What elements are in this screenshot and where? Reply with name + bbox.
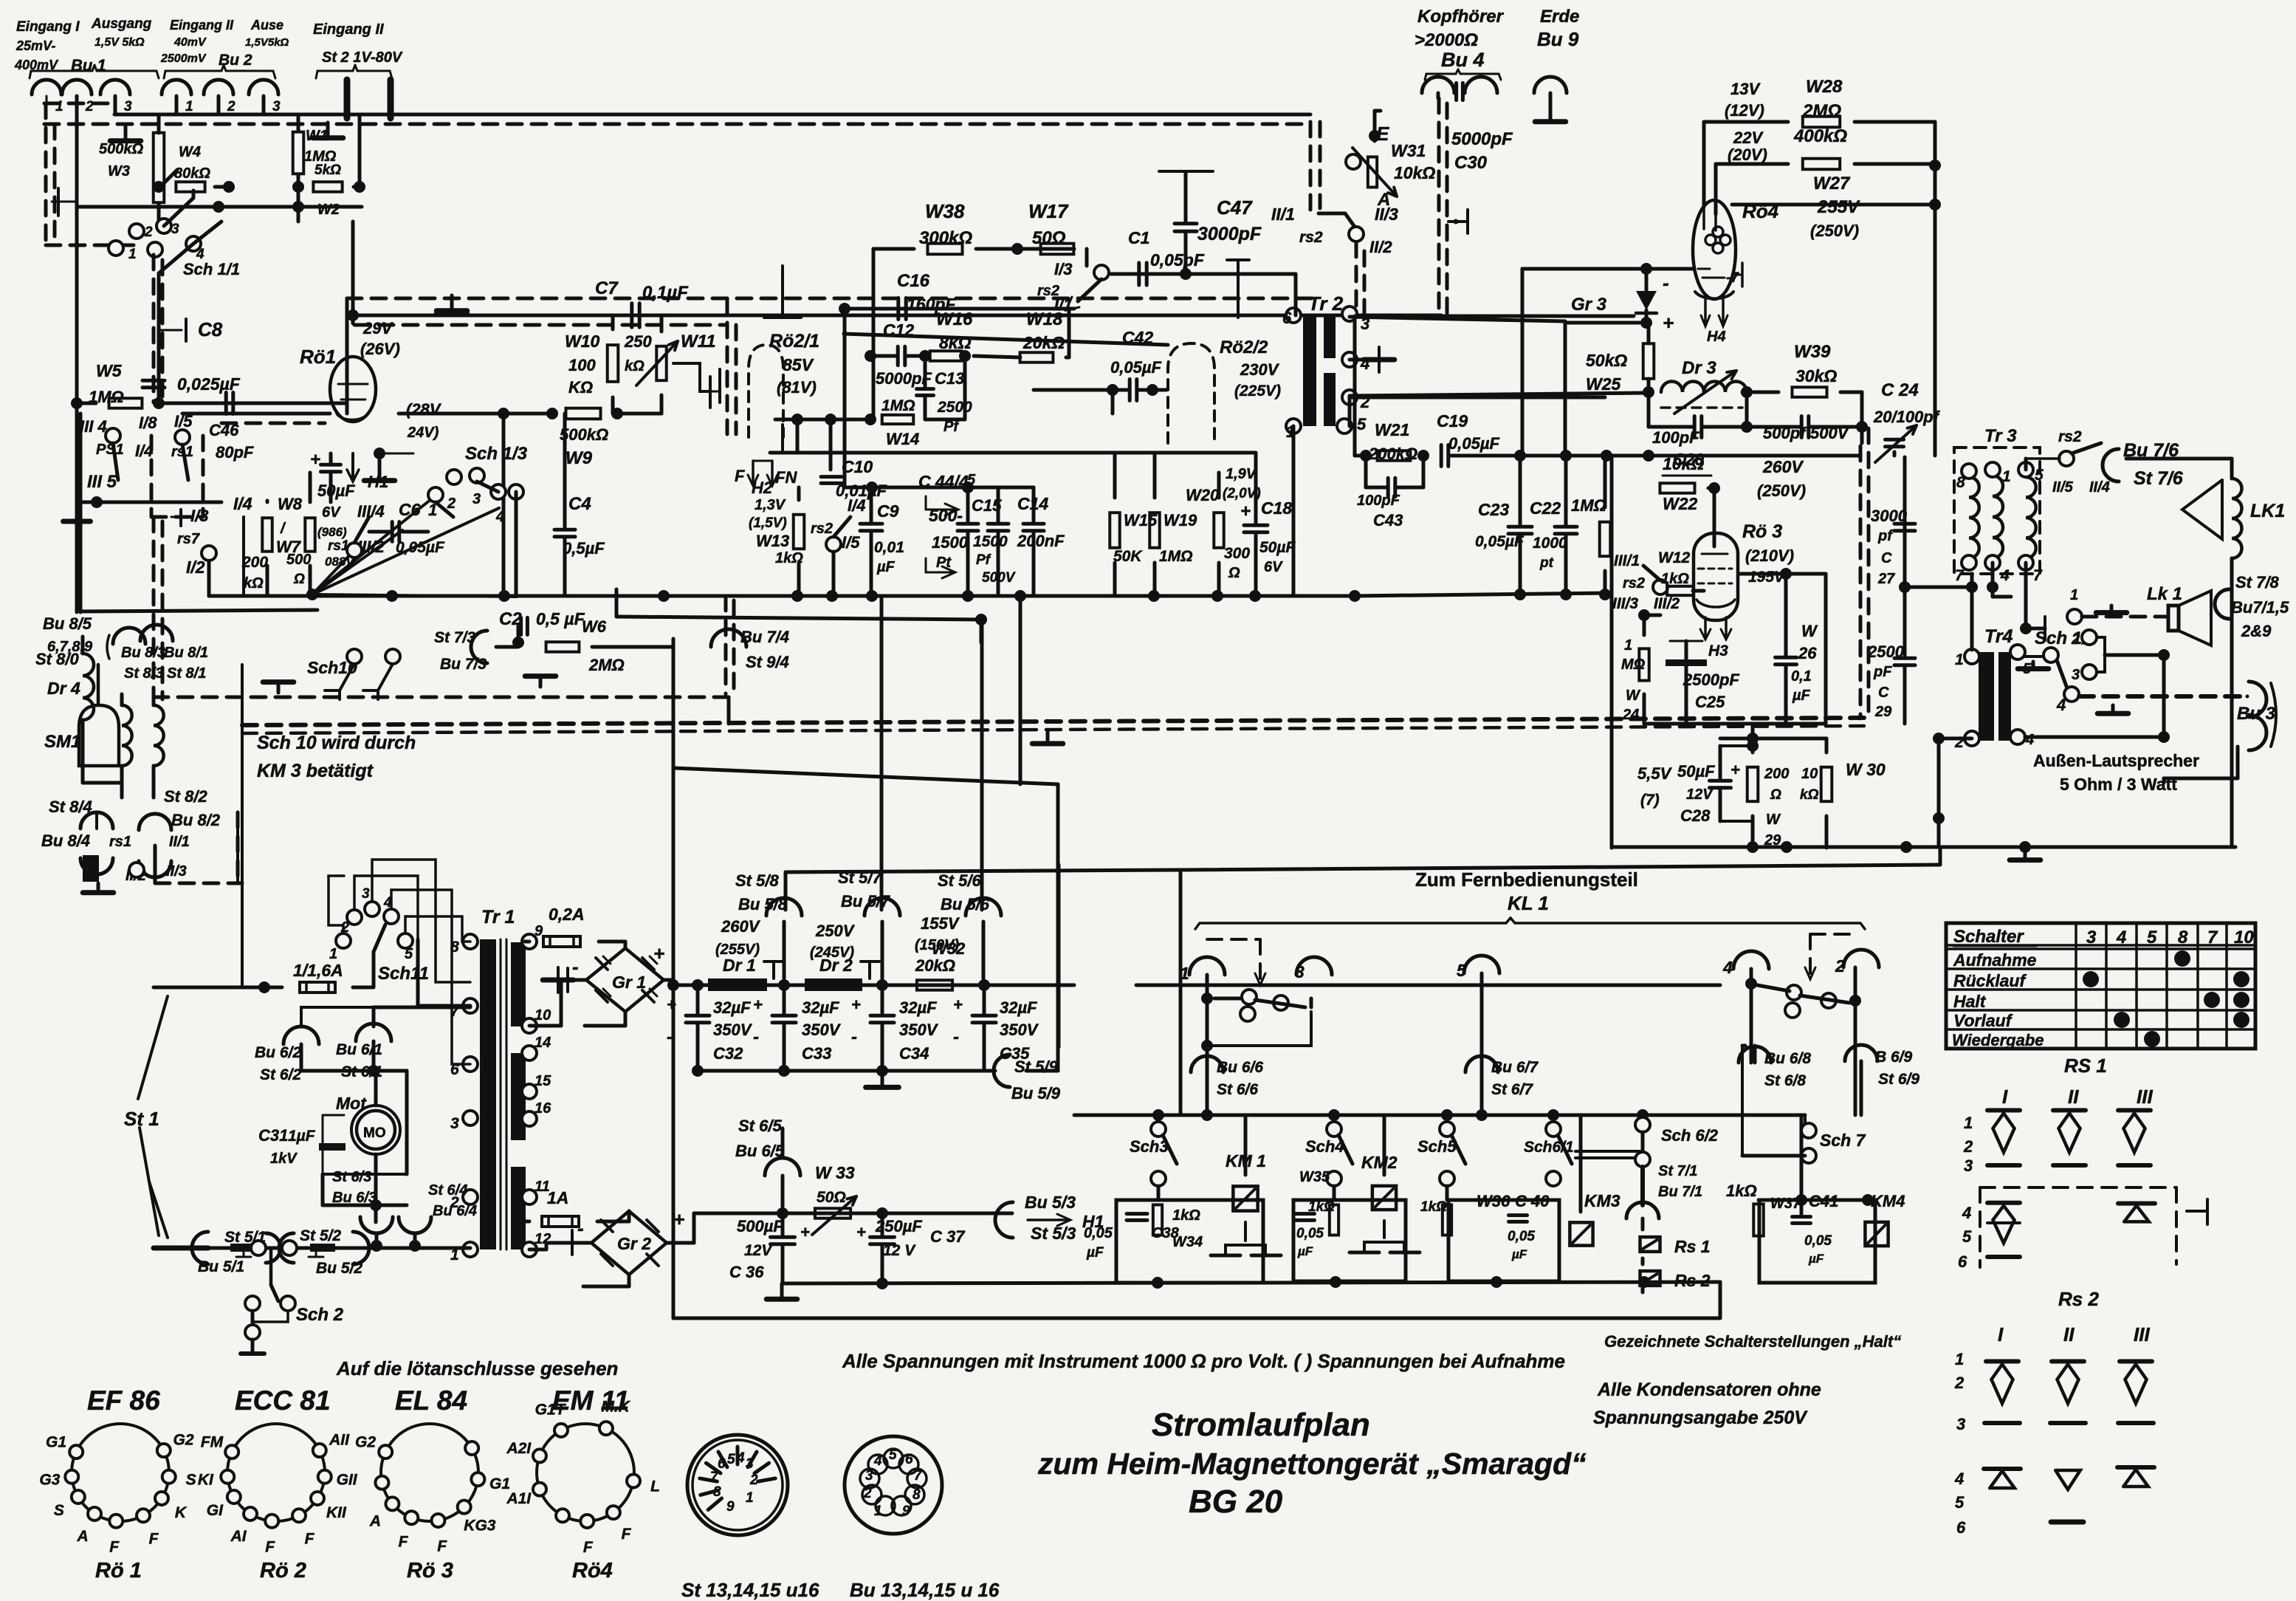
svg-text:rs7: rs7 — [177, 531, 200, 547]
svg-text:A1I: A1I — [506, 1490, 532, 1507]
svg-text:W28: W28 — [1806, 77, 1843, 97]
svg-text:C43: C43 — [1373, 511, 1403, 529]
svg-text:C23: C23 — [1478, 500, 1509, 519]
svg-text:10: 10 — [1801, 766, 1818, 782]
svg-text:pF: pF — [1873, 664, 1892, 680]
svg-text:+: + — [753, 995, 763, 1014]
svg-text:2500: 2500 — [937, 399, 972, 416]
svg-text:I: I — [1998, 1323, 2004, 1345]
svg-text:>2000Ω: >2000Ω — [1415, 30, 1478, 50]
svg-text:St 8/2: St 8/2 — [164, 787, 207, 806]
svg-text:29V: 29V — [362, 319, 393, 337]
svg-text:3: 3 — [1295, 962, 1305, 981]
svg-text:S: S — [54, 1502, 64, 1519]
svg-text:B 6/9: B 6/9 — [1875, 1049, 1913, 1066]
svg-text:pt: pt — [1539, 555, 1554, 571]
svg-text:Halt: Halt — [1953, 992, 1987, 1011]
svg-text:0,05: 0,05 — [1508, 1229, 1535, 1244]
svg-text:St 7/6: St 7/6 — [2134, 468, 2184, 489]
svg-text:32µF: 32µF — [713, 998, 751, 1017]
svg-text:F: F — [109, 1539, 120, 1556]
svg-text:Dr 4: Dr 4 — [47, 679, 80, 698]
svg-text:KM2: KM2 — [1361, 1153, 1398, 1172]
svg-text:4: 4 — [2025, 732, 2034, 748]
svg-text:2: 2 — [227, 99, 236, 114]
svg-text:C8: C8 — [198, 318, 223, 340]
svg-text:St 6/6: St 6/6 — [1217, 1081, 1258, 1098]
svg-text:0,1: 0,1 — [1791, 668, 1812, 685]
svg-text:II/1: II/1 — [1271, 205, 1295, 224]
svg-text:KI: KI — [198, 1472, 214, 1489]
svg-text:W13: W13 — [756, 532, 789, 550]
svg-text:W20: W20 — [1186, 486, 1220, 504]
svg-text:Sch 2: Sch 2 — [296, 1305, 344, 1325]
svg-text:195V: 195V — [1748, 569, 1786, 586]
svg-text:F: F — [305, 1530, 315, 1547]
svg-text:III: III — [2137, 1086, 2153, 1108]
svg-text:C47: C47 — [1217, 196, 1253, 219]
svg-text:MO: MO — [363, 1125, 386, 1141]
svg-text:0,05: 0,05 — [1804, 1233, 1832, 1249]
svg-text:4: 4 — [2116, 928, 2126, 947]
svg-text:Sch6/1: Sch6/1 — [1524, 1139, 1574, 1156]
svg-text:Bu 5/1: Bu 5/1 — [198, 1258, 244, 1275]
svg-text:LK1: LK1 — [2250, 501, 2285, 521]
svg-text:C7: C7 — [595, 278, 619, 298]
svg-text:7: 7 — [1955, 567, 1965, 584]
svg-text:1MΩ: 1MΩ — [881, 397, 915, 414]
svg-text:C34: C34 — [899, 1044, 929, 1063]
svg-text:W: W — [1626, 688, 1641, 704]
svg-text:0,05µF: 0,05µF — [1448, 434, 1499, 453]
svg-text:G3: G3 — [39, 1472, 60, 1489]
svg-text:Sch11: Sch11 — [378, 964, 429, 984]
svg-text:S: S — [186, 1472, 196, 1489]
svg-text:II: II — [2068, 1086, 2079, 1108]
svg-text:W36: W36 — [1477, 1192, 1510, 1210]
svg-text:Bu 6/4: Bu 6/4 — [433, 1203, 477, 1219]
svg-text:32µF: 32µF — [802, 998, 839, 1017]
svg-text:St 2 1V-80V: St 2 1V-80V — [322, 49, 403, 66]
svg-text:Rö1: Rö1 — [300, 346, 336, 368]
svg-text:W 30: W 30 — [1846, 760, 1886, 779]
svg-text:350V: 350V — [713, 1021, 753, 1039]
svg-text:3: 3 — [124, 99, 132, 114]
svg-text:50µF: 50µF — [1677, 762, 1715, 781]
svg-text:Lk 1: Lk 1 — [2147, 584, 2182, 604]
svg-text:400kΩ: 400kΩ — [1793, 126, 1847, 146]
svg-text:+: + — [1240, 501, 1251, 521]
svg-text:I/4: I/4 — [233, 494, 252, 513]
svg-text:kΩ: kΩ — [1800, 787, 1819, 803]
svg-text:260V: 260V — [1762, 457, 1804, 476]
svg-text:2500pF: 2500pF — [1683, 671, 1739, 689]
svg-text:+: + — [953, 995, 963, 1014]
svg-text:GI: GI — [207, 1502, 224, 1519]
svg-text:I: I — [2002, 1086, 2008, 1108]
svg-text:KΩ: KΩ — [568, 378, 593, 397]
svg-text:II/3: II/3 — [166, 863, 187, 880]
svg-text:4: 4 — [736, 1450, 745, 1466]
svg-text:+: + — [851, 995, 861, 1014]
svg-text:1,3V: 1,3V — [755, 497, 786, 513]
svg-text:G2: G2 — [355, 1434, 376, 1451]
svg-text:C 36: C 36 — [729, 1263, 764, 1281]
svg-text:Wiedergabe: Wiedergabe — [1952, 1031, 2044, 1049]
svg-text:10: 10 — [535, 1007, 551, 1024]
svg-text:1,9V: 1,9V — [1226, 466, 1257, 482]
svg-text:Sch3: Sch3 — [1130, 1137, 1169, 1156]
svg-text:4: 4 — [1954, 1470, 1964, 1488]
svg-text:5: 5 — [1357, 415, 1367, 433]
svg-text:300: 300 — [1224, 545, 1250, 562]
svg-text:5: 5 — [889, 1447, 897, 1463]
svg-text:I/2: I/2 — [186, 558, 205, 577]
svg-text:+: + — [1663, 312, 1674, 334]
svg-text:µF: µF — [876, 559, 896, 575]
svg-text:1: 1 — [1955, 1350, 1964, 1368]
svg-text:II/1: II/1 — [169, 834, 190, 850]
svg-text:8kΩ: 8kΩ — [939, 333, 972, 352]
svg-text:1: 1 — [128, 247, 137, 262]
svg-text:Alle Spannungen mit Instrument: Alle Spannungen mit Instrument 1000 Ω pr… — [842, 1350, 1565, 1372]
svg-text:W18: W18 — [1026, 309, 1063, 329]
svg-text:16: 16 — [535, 1100, 551, 1117]
svg-text:F: F — [437, 1537, 447, 1554]
svg-text:5: 5 — [2035, 467, 2044, 484]
svg-text:(210V): (210V) — [1745, 546, 1794, 565]
svg-text:5: 5 — [1962, 1227, 1972, 1246]
svg-text:µF: µF — [1808, 1252, 1824, 1266]
svg-text:(150V): (150V) — [915, 937, 959, 953]
svg-text:W6: W6 — [582, 617, 607, 636]
svg-text:G1T: G1T — [535, 1401, 567, 1418]
svg-text:W3: W3 — [108, 163, 130, 179]
svg-text:12: 12 — [535, 1231, 551, 1247]
svg-text:I/8: I/8 — [139, 414, 157, 432]
svg-text:A: A — [77, 1528, 89, 1545]
svg-text:Sch 1/1: Sch 1/1 — [183, 260, 240, 278]
svg-text:Bu 8/4: Bu 8/4 — [41, 832, 90, 850]
svg-text:K: K — [175, 1504, 188, 1521]
svg-text:St 8/4: St 8/4 — [49, 798, 92, 816]
svg-text:C 40: C 40 — [1515, 1192, 1550, 1210]
svg-text:Dr 1: Dr 1 — [723, 956, 756, 975]
svg-text:C28: C28 — [1680, 806, 1711, 825]
svg-text:4: 4 — [2000, 567, 2010, 584]
svg-text:80kΩ: 80kΩ — [174, 165, 210, 182]
svg-text:PS1: PS1 — [96, 442, 124, 458]
svg-text:St 6/7: St 6/7 — [1491, 1081, 1533, 1098]
svg-text:1kΩ: 1kΩ — [1420, 1199, 1447, 1215]
svg-text:St 8/1: St 8/1 — [167, 665, 206, 682]
svg-text:Bu 5/3: Bu 5/3 — [1025, 1193, 1076, 1212]
svg-text:St 5/8: St 5/8 — [735, 871, 779, 890]
svg-text:26: 26 — [1798, 644, 1817, 662]
svg-text:1A: 1A — [547, 1188, 568, 1207]
svg-text:(7): (7) — [1640, 792, 1660, 809]
svg-text:1000: 1000 — [1533, 535, 1567, 552]
svg-text:H4: H4 — [1707, 329, 1726, 345]
svg-text:RS 1: RS 1 — [2064, 1055, 2107, 1077]
svg-text:St 6/8: St 6/8 — [1764, 1072, 1806, 1089]
svg-text:St 8/3: St 8/3 — [124, 665, 163, 682]
svg-text:KM3: KM3 — [1584, 1191, 1620, 1210]
svg-text:1: 1 — [329, 946, 337, 962]
svg-text:15: 15 — [535, 1073, 551, 1089]
svg-text:Bu 4: Bu 4 — [1441, 49, 1485, 71]
svg-text:4: 4 — [873, 1453, 882, 1469]
svg-text:zum Heim-Magnettongerät „Smara: zum Heim-Magnettongerät „Smaragd“ — [1037, 1447, 1587, 1481]
svg-text:St 6/3: St 6/3 — [332, 1169, 371, 1185]
svg-text:µF: µF — [1086, 1245, 1104, 1261]
svg-text:H3: H3 — [1708, 642, 1728, 659]
svg-text:2: 2 — [2071, 631, 2080, 648]
svg-text:200nF: 200nF — [1017, 532, 1065, 550]
svg-text:3: 3 — [2086, 928, 2097, 947]
svg-text:St 5/9: St 5/9 — [1014, 1057, 1058, 1076]
svg-text:1MΩ: 1MΩ — [1571, 496, 1606, 515]
svg-text:50Ω: 50Ω — [1032, 228, 1066, 248]
svg-text:Kopfhörer: Kopfhörer — [1417, 7, 1505, 27]
svg-text:C1: C1 — [1128, 228, 1149, 247]
svg-text:20kΩ: 20kΩ — [915, 956, 955, 975]
svg-text:Rücklauf: Rücklauf — [1953, 971, 2027, 990]
svg-text:F: F — [399, 1534, 409, 1551]
svg-text:W16: W16 — [936, 309, 973, 329]
svg-text:III/3: III/3 — [1612, 595, 1638, 612]
svg-text:Rö4: Rö4 — [572, 1559, 613, 1583]
svg-text:3: 3 — [2072, 667, 2080, 683]
svg-text:260V: 260V — [721, 917, 761, 936]
svg-text:50kΩ: 50kΩ — [1586, 351, 1627, 370]
svg-text:5 Ohm / 3 Watt: 5 Ohm / 3 Watt — [2060, 775, 2177, 794]
svg-text:KM 3 betätigt: KM 3 betätigt — [257, 761, 374, 781]
svg-text:Rs 1: Rs 1 — [1674, 1237, 1711, 1256]
svg-text:W17: W17 — [1028, 200, 1069, 222]
svg-text:Bu 7/4: Bu 7/4 — [740, 628, 789, 646]
svg-text:6: 6 — [1282, 309, 1292, 327]
svg-text:2: 2 — [1954, 734, 1964, 751]
svg-text:W12: W12 — [1658, 549, 1691, 566]
svg-text:Rö2/2: Rö2/2 — [1220, 337, 1268, 357]
svg-text:(12V): (12V) — [1725, 101, 1764, 120]
svg-text:BG 20: BG 20 — [1189, 1484, 1283, 1520]
svg-text:32µF: 32µF — [1000, 998, 1037, 1017]
svg-text:Sch 7: Sch 7 — [1820, 1131, 1866, 1150]
svg-text:100: 100 — [568, 356, 596, 374]
svg-text:St 6/9: St 6/9 — [1878, 1071, 1919, 1088]
svg-text:W9: W9 — [566, 448, 593, 468]
svg-text:1kΩ: 1kΩ — [1661, 571, 1689, 587]
svg-text:(255V): (255V) — [715, 942, 760, 958]
svg-text:4: 4 — [2056, 696, 2066, 714]
svg-text:40mV: 40mV — [173, 36, 207, 49]
svg-text:22V: 22V — [1733, 128, 1764, 147]
svg-text:III/4: III/4 — [357, 502, 385, 521]
svg-text:+: + — [800, 1223, 810, 1241]
svg-text:W11: W11 — [681, 332, 716, 352]
svg-text:10kΩ: 10kΩ — [1663, 454, 1704, 473]
svg-text:G2: G2 — [173, 1432, 194, 1449]
svg-text:0,2A: 0,2A — [549, 905, 585, 924]
svg-text:(225V): (225V) — [1234, 383, 1281, 400]
svg-text:AII: AII — [329, 1432, 350, 1449]
svg-text:Bu 8/1: Bu 8/1 — [164, 645, 208, 661]
svg-text:0,1µF: 0,1µF — [642, 283, 689, 303]
svg-text:80pF: 80pF — [216, 443, 254, 462]
svg-text:Sch4: Sch4 — [1305, 1137, 1344, 1156]
svg-text:II/5: II/5 — [2052, 479, 2074, 496]
svg-text:L: L — [650, 1478, 660, 1495]
svg-text:Sch5: Sch5 — [1417, 1137, 1457, 1156]
svg-text:20/100pf: 20/100pf — [1873, 408, 1941, 426]
svg-text:0,05: 0,05 — [1296, 1226, 1324, 1241]
svg-text:32µF: 32µF — [899, 998, 937, 1017]
svg-text:8: 8 — [2178, 928, 2188, 947]
svg-text:III/2: III/2 — [1654, 595, 1680, 612]
svg-text:1/1,6A: 1/1,6A — [293, 961, 343, 980]
svg-text:(20V): (20V) — [1728, 145, 1767, 164]
svg-text:-7: -7 — [1726, 270, 1739, 286]
svg-text:24V): 24V) — [407, 425, 439, 441]
svg-text:500: 500 — [286, 552, 311, 568]
svg-text:Tr4: Tr4 — [1984, 626, 2013, 647]
svg-text:C30: C30 — [1454, 153, 1488, 173]
svg-text:C18: C18 — [1261, 498, 1292, 518]
svg-text:Erde: Erde — [1540, 7, 1579, 27]
svg-text:F: F — [622, 1526, 632, 1543]
svg-text:1500: 1500 — [932, 533, 969, 552]
svg-text:C4: C4 — [568, 494, 591, 514]
svg-text:F: F — [149, 1530, 159, 1547]
svg-text:W10: W10 — [565, 332, 600, 351]
svg-text:W2: W2 — [317, 202, 340, 218]
svg-text:SM1: SM1 — [44, 732, 80, 752]
svg-text:3: 3 — [450, 1115, 459, 1132]
svg-text:Bu 13,14,15 u 16: Bu 13,14,15 u 16 — [850, 1579, 1000, 1601]
svg-text:200: 200 — [1764, 766, 1789, 782]
svg-text:7: 7 — [914, 1468, 923, 1484]
svg-text:C 24: C 24 — [1881, 380, 1919, 400]
svg-text:50K: 50K — [1113, 548, 1143, 565]
svg-text:EL 84: EL 84 — [395, 1385, 467, 1416]
svg-text:KII: KII — [326, 1504, 347, 1521]
svg-text:St 9/4: St 9/4 — [746, 653, 789, 671]
svg-text:Ω: Ω — [1770, 787, 1781, 803]
svg-text:1kΩ: 1kΩ — [1726, 1182, 1757, 1200]
svg-text:6: 6 — [718, 1456, 726, 1472]
svg-text:Ause: Ause — [250, 18, 283, 32]
svg-text:C: C — [1881, 550, 1892, 566]
svg-text:6V: 6V — [322, 504, 341, 521]
svg-text:Bu 5/9: Bu 5/9 — [1011, 1084, 1061, 1103]
svg-text:St 5/6: St 5/6 — [938, 871, 981, 890]
svg-text:A: A — [1377, 190, 1390, 210]
svg-text:W35: W35 — [1299, 1169, 1330, 1185]
svg-text:kΩ: kΩ — [625, 358, 645, 374]
svg-text:Rö 2: Rö 2 — [260, 1559, 306, 1583]
svg-text:1MΩ: 1MΩ — [1159, 548, 1193, 565]
svg-text:2: 2 — [863, 1486, 872, 1501]
svg-text:I/5: I/5 — [842, 533, 860, 552]
svg-text:(245V): (245V) — [810, 945, 854, 961]
svg-text:0,05µF: 0,05µF — [1475, 533, 1525, 550]
svg-text:(1,5V): (1,5V) — [749, 515, 787, 531]
svg-text:3: 3 — [472, 491, 481, 507]
svg-text:8: 8 — [713, 1484, 721, 1500]
svg-text:0,025µF: 0,025µF — [177, 374, 241, 394]
svg-text:0,05pF: 0,05pF — [1150, 250, 1205, 270]
svg-text:6: 6 — [1958, 1252, 1967, 1271]
svg-text:255V: 255V — [1817, 197, 1860, 217]
svg-text:7: 7 — [710, 1470, 719, 1485]
svg-text:Aufnahme: Aufnahme — [1953, 950, 2037, 970]
svg-text:2: 2 — [1954, 1374, 1965, 1392]
svg-text:Rö 3: Rö 3 — [1742, 521, 1782, 542]
svg-text:6: 6 — [905, 1452, 913, 1467]
svg-text:KG3: KG3 — [464, 1518, 496, 1535]
svg-text:C19: C19 — [1437, 411, 1468, 431]
svg-text:500kΩ: 500kΩ — [99, 141, 143, 157]
svg-text:3: 3 — [362, 886, 370, 902]
svg-text:27: 27 — [1877, 571, 1895, 587]
svg-text:F: F — [735, 467, 745, 485]
svg-text:-: - — [1663, 272, 1669, 294]
svg-text:II/2: II/2 — [1369, 238, 1392, 256]
svg-text:Sch 1/3: Sch 1/3 — [465, 444, 528, 464]
svg-text:Eingang II: Eingang II — [170, 18, 234, 32]
svg-text:II: II — [2063, 1323, 2075, 1345]
svg-text:230V: 230V — [1240, 360, 1280, 379]
svg-text:C42: C42 — [1122, 328, 1153, 347]
svg-text:1: 1 — [185, 99, 193, 114]
svg-text:1: 1 — [1964, 1114, 1973, 1132]
svg-text:(986): (986) — [317, 525, 347, 539]
svg-text:St 7/8: St 7/8 — [2235, 573, 2279, 592]
svg-text:W31: W31 — [1391, 141, 1426, 160]
svg-text:5: 5 — [405, 946, 413, 962]
svg-text:C22: C22 — [1530, 498, 1561, 518]
svg-text:0,05: 0,05 — [1084, 1225, 1113, 1241]
svg-text:Sch 6/2: Sch 6/2 — [1661, 1126, 1719, 1145]
svg-text:2MΩ: 2MΩ — [1802, 101, 1841, 121]
svg-text:Bu 8/5: Bu 8/5 — [43, 614, 92, 633]
svg-text:2: 2 — [340, 919, 349, 936]
svg-text:250: 250 — [624, 332, 652, 351]
svg-text:Rs 2: Rs 2 — [2058, 1288, 2099, 1310]
svg-text:C31: C31 — [258, 1126, 288, 1145]
svg-text:-: - — [953, 1027, 959, 1047]
svg-text:(28V: (28V — [406, 400, 442, 419]
svg-text:9: 9 — [902, 1504, 910, 1519]
svg-text:350V: 350V — [802, 1021, 842, 1039]
svg-text:III 5: III 5 — [87, 472, 117, 492]
svg-text:13V: 13V — [1730, 80, 1761, 98]
svg-text:0,5µF: 0,5µF — [563, 539, 605, 558]
svg-text:AI: AI — [230, 1528, 247, 1545]
svg-text:Rö 3: Rö 3 — [407, 1559, 453, 1583]
svg-text:1: 1 — [2070, 587, 2078, 603]
svg-text:F: F — [583, 1539, 594, 1556]
svg-text:ECC 81: ECC 81 — [235, 1385, 331, 1416]
svg-text:0,05µF: 0,05µF — [1110, 358, 1161, 377]
svg-text:I/3: I/3 — [190, 507, 208, 525]
svg-text:10: 10 — [2234, 928, 2254, 947]
svg-text:3: 3 — [1956, 1415, 1965, 1433]
svg-text:Außen-Lautsprecher: Außen-Lautsprecher — [2033, 751, 2199, 770]
svg-text:1kΩ: 1kΩ — [1308, 1199, 1335, 1215]
